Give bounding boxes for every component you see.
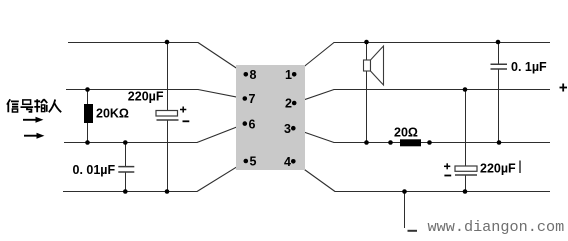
junction middle-right rail / C3 bottom (497, 140, 502, 145)
wire bottom-left rail to pin 5 (63, 161, 246, 191)
wire C4 branch lower (465, 175, 467, 192)
junction top rail / C1 (165, 40, 170, 45)
junction bottom-right rail / C4 bottom (463, 189, 468, 194)
wire pin 1 to top-right rail (294, 43, 550, 75)
capacitor C4 220µF electrolytic (444, 161, 520, 176)
wire speaker branch (366, 42, 368, 143)
svg-text:20Ω: 20Ω (394, 126, 418, 140)
wire pin 4 to bottom-right rail (293, 162, 550, 192)
arrow input upper (23, 117, 43, 123)
wire pin 3 to middle-right rail (293, 128, 550, 142)
node negative supply terminal (408, 230, 418, 232)
wire middle-left rail to pin 6 (64, 124, 245, 143)
wire top-left rail to pin 8 (68, 43, 246, 75)
junction top rail / speaker (364, 40, 369, 45)
svg-text:4: 4 (284, 155, 291, 169)
junction R2 left lead (388, 140, 393, 145)
pin 1 (285, 68, 296, 82)
junction R2 right lead (427, 140, 432, 145)
wire C1 branch lower (167, 120, 169, 192)
pin 3 (284, 122, 296, 136)
junction bottom-left rail / C2 bottom (123, 189, 128, 194)
label signal input 信号输入 (drawn glyphs) (7, 99, 61, 112)
pin 5 (244, 155, 257, 169)
svg-text:6: 6 (249, 117, 256, 131)
wire pin 2 to +V rail (294, 90, 550, 104)
junction input rail / R1 top (85, 87, 90, 92)
wire input rail to pin 7 (66, 90, 245, 99)
IC U1 body (236, 65, 305, 170)
wire C2 branch upper (125, 143, 127, 167)
junction bottom-right rail / negative drop (402, 189, 407, 194)
pin 8 (244, 68, 257, 82)
pin 6 (243, 117, 256, 131)
watermark www.diangon.com (428, 218, 565, 236)
junction middle-left rail / R1 bottom (85, 140, 90, 145)
pin 2 (285, 97, 296, 111)
junction bottom-left rail / C1 bottom (165, 189, 170, 194)
pin 4 (284, 155, 296, 169)
wire C3 branch upper (498, 42, 500, 64)
resistor R2 20Ω (394, 126, 421, 147)
svg-text:1: 1 (285, 68, 292, 82)
svg-text:0. 01µF: 0. 01µF (73, 163, 116, 177)
arrow input lower (24, 133, 44, 139)
svg-text:20KΩ: 20KΩ (96, 107, 129, 121)
junction middle-left rail / C2 top (123, 140, 128, 145)
svg-text:220µF: 220µF (128, 90, 164, 104)
svg-text:3: 3 (284, 122, 291, 136)
svg-text:7: 7 (249, 92, 256, 106)
node positive supply terminal (560, 84, 568, 92)
svg-text:0. 1µF: 0. 1µF (511, 60, 547, 74)
capacitor C2 0.01µF (73, 163, 135, 177)
junction middle-right rail / speaker bottom (364, 140, 369, 145)
junction +V rail / C4 top (463, 87, 468, 92)
capacitor C1 220µF electrolytic (128, 90, 190, 122)
capacitor C3 0.1µF (491, 60, 548, 74)
pin 7 (243, 92, 256, 106)
wire C1 branch upper (167, 42, 169, 111)
svg-text:2: 2 (285, 97, 292, 111)
svg-text:www.diangon.com: www.diangon.com (428, 218, 565, 236)
wire C2 branch lower (125, 172, 127, 192)
speaker LS1 (364, 46, 384, 85)
resistor R1 20KΩ (84, 104, 129, 123)
wire C4 branch upper (465, 90, 467, 167)
svg-text:5: 5 (250, 155, 257, 169)
wire R1 branch (87, 90, 89, 143)
junction top rail / C3 (496, 40, 501, 45)
wire C3 branch lower (498, 69, 500, 143)
wire negative terminal drop (404, 192, 406, 229)
svg-text:8: 8 (250, 68, 257, 82)
svg-text:220µF: 220µF (480, 162, 516, 176)
